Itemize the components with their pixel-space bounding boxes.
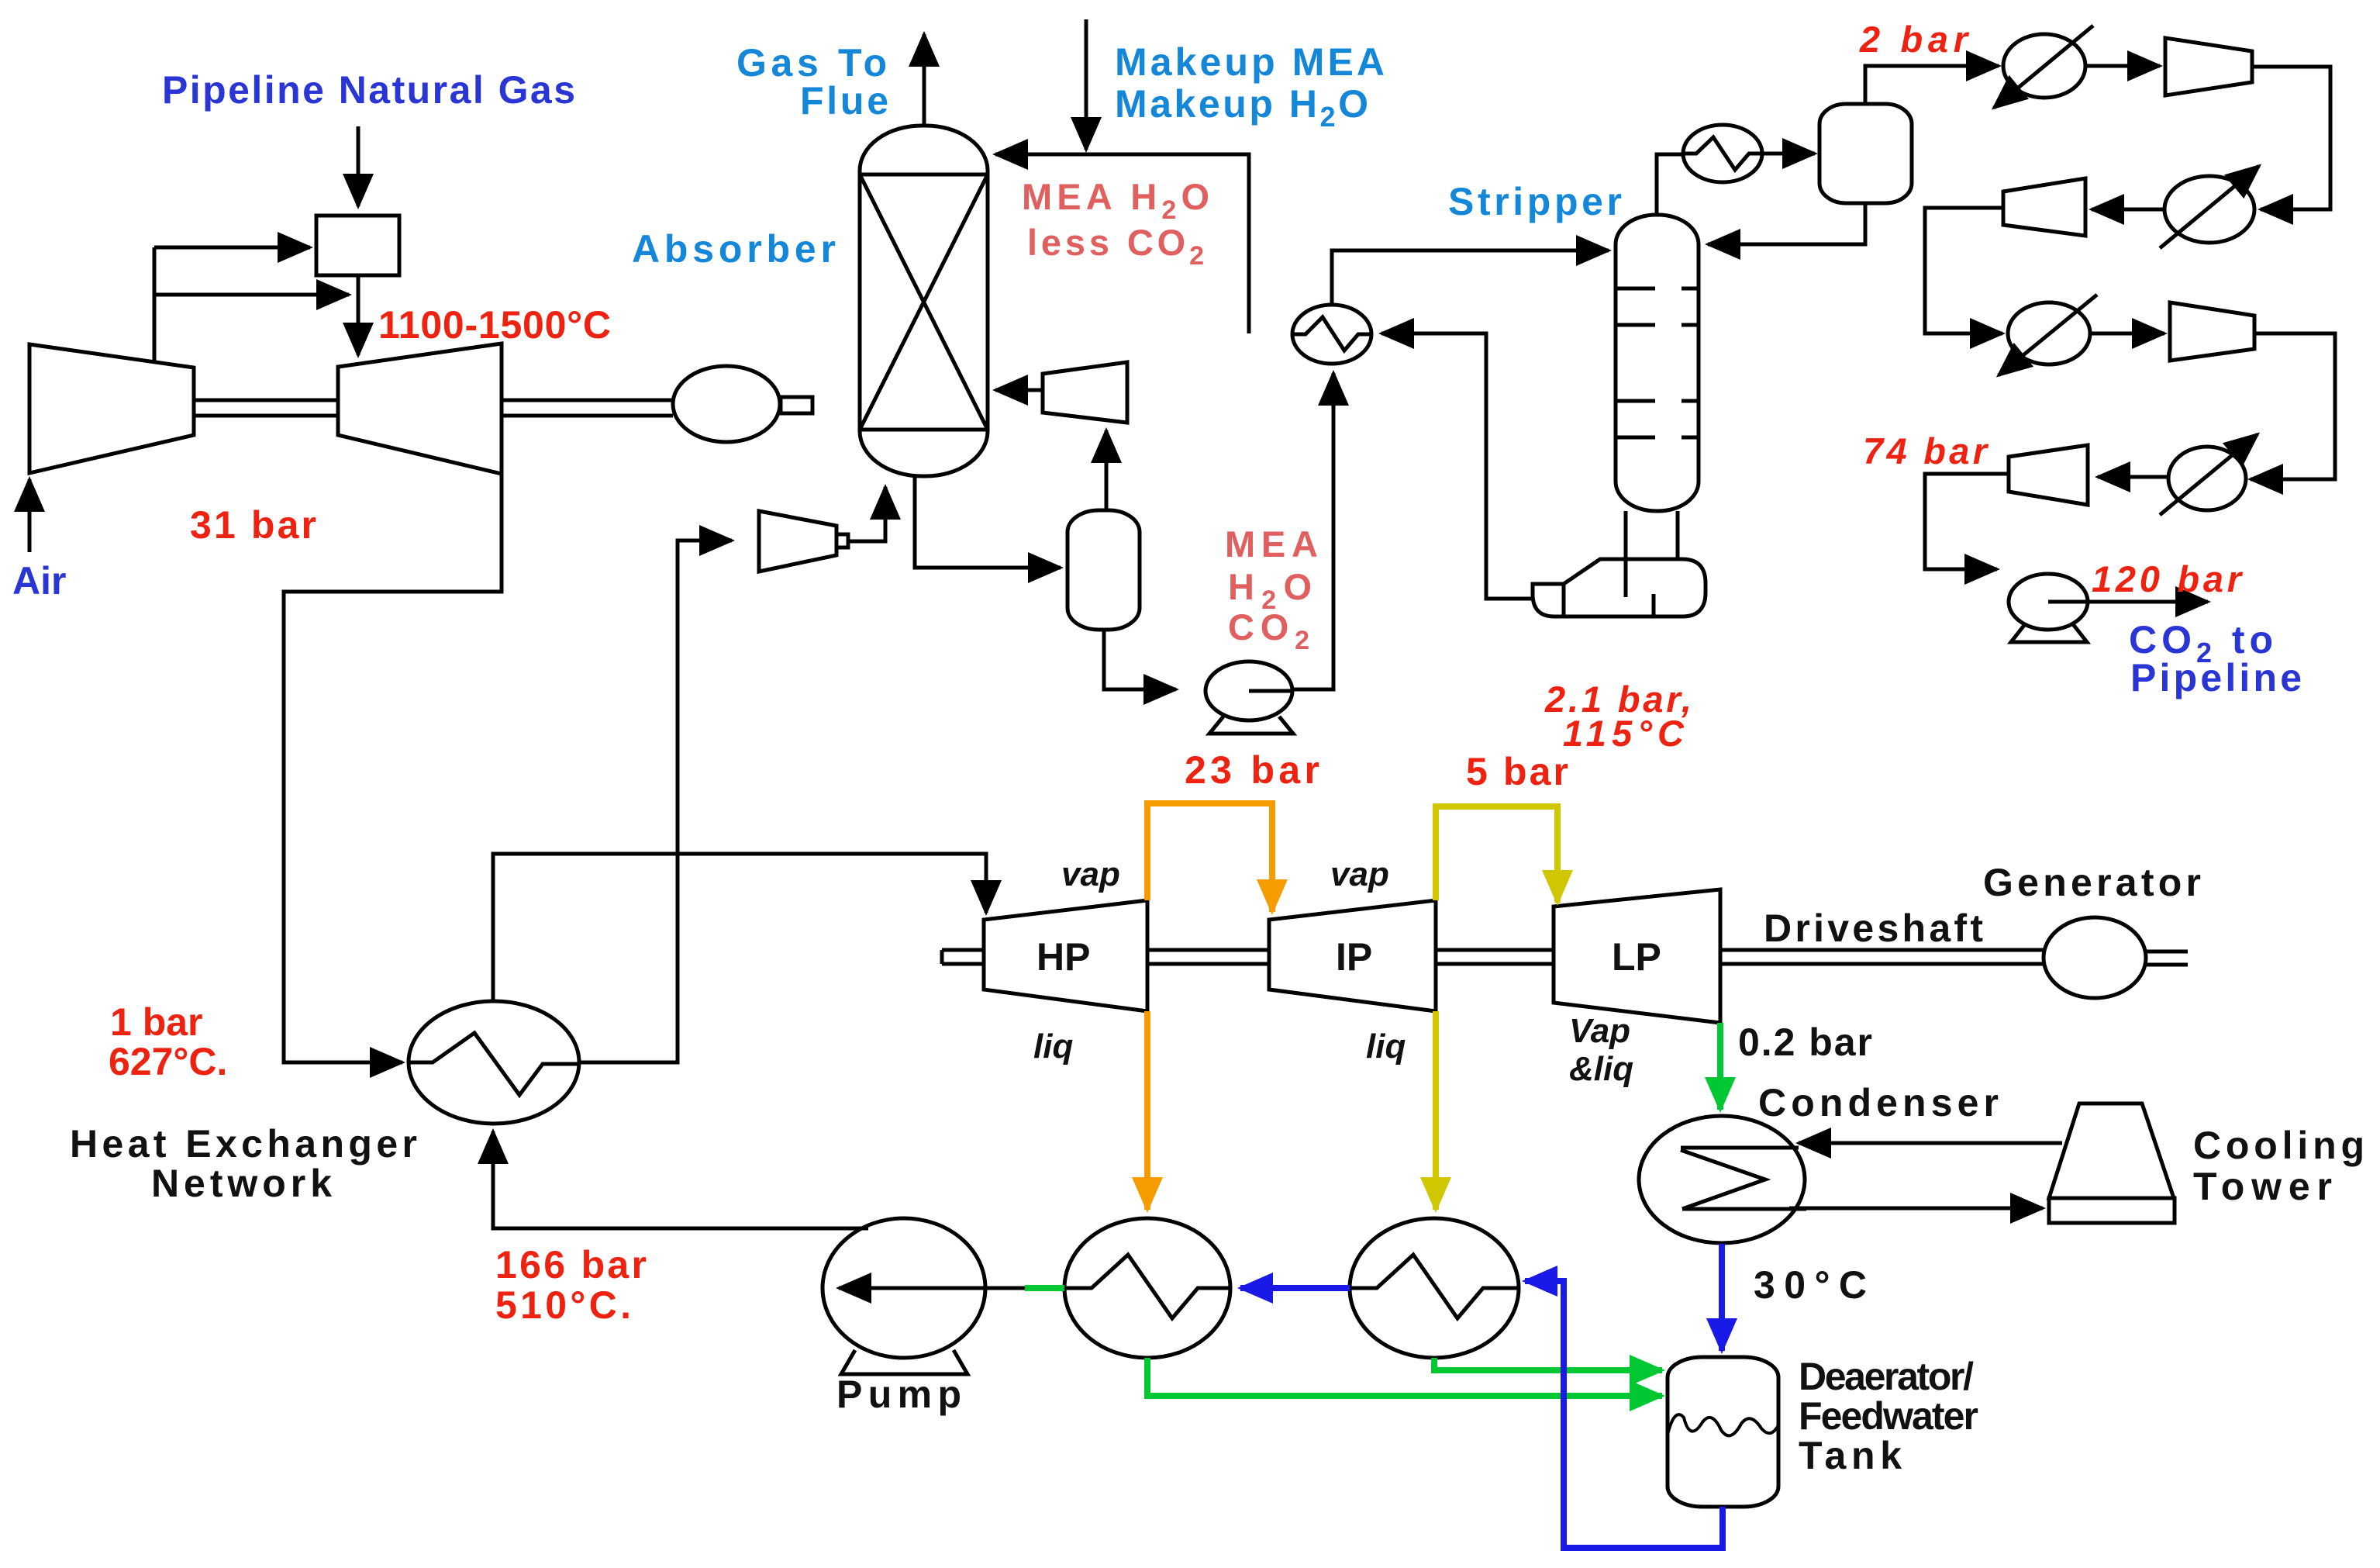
svg-text:Deaerator/: Deaerator/ xyxy=(1799,1355,1974,1398)
svg-text:0.2 bar: 0.2 bar xyxy=(1738,1021,1872,1064)
svg-text:Pump: Pump xyxy=(836,1373,961,1416)
svg-text:vap: vap xyxy=(1061,855,1120,893)
svg-text:Gas To: Gas To xyxy=(736,41,887,85)
svg-text:Vap: Vap xyxy=(1569,1012,1630,1050)
svg-text:5 bar: 5 bar xyxy=(1466,750,1568,793)
svg-text:31 bar: 31 bar xyxy=(190,503,316,547)
svg-text:vap: vap xyxy=(1330,855,1389,893)
svg-text:Air: Air xyxy=(12,559,66,603)
svg-text:IP: IP xyxy=(1336,935,1372,979)
svg-text:23 bar: 23 bar xyxy=(1185,748,1319,792)
svg-text:Flue: Flue xyxy=(800,79,888,123)
svg-text:Feedwater: Feedwater xyxy=(1799,1394,1978,1438)
svg-text:1100-1500°C: 1100-1500°C xyxy=(378,303,611,347)
svg-text:HP: HP xyxy=(1037,935,1090,979)
svg-text:Pipeline: Pipeline xyxy=(2130,656,2302,699)
svg-text:510°C.: 510°C. xyxy=(495,1283,631,1327)
svg-text:Network: Network xyxy=(151,1162,332,1205)
svg-text:liq: liq xyxy=(1033,1027,1073,1065)
svg-text:liq: liq xyxy=(1366,1027,1406,1065)
svg-text:Heat Exchanger: Heat Exchanger xyxy=(70,1122,417,1166)
svg-text:627°C.: 627°C. xyxy=(109,1040,227,1083)
svg-text:Pipeline Natural Gas: Pipeline Natural Gas xyxy=(162,68,575,112)
svg-text:Driveshaft: Driveshaft xyxy=(1764,907,1983,950)
svg-text:2 bar: 2 bar xyxy=(1859,19,1970,60)
svg-text:&liq: &liq xyxy=(1569,1050,1633,1088)
svg-text:Condenser: Condenser xyxy=(1758,1081,1999,1124)
svg-text:LP: LP xyxy=(1612,935,1661,979)
svg-text:1 bar: 1 bar xyxy=(110,1000,203,1044)
svg-text:MEA: MEA xyxy=(1225,523,1318,565)
